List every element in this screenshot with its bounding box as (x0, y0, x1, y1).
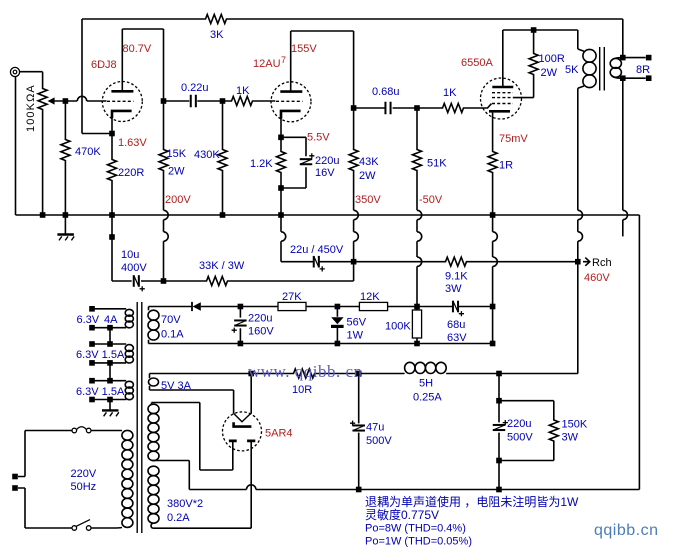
resistor 10R (292, 369, 316, 378)
capacitor 220u/500V branch (498, 374, 500, 490)
zener 56V upper lead (336, 307, 338, 317)
wire cathode branch to 220u/16V (281, 137, 306, 156)
junction rail 100K bottom (414, 341, 420, 347)
wire 43K lower lead with hops (353, 172, 355, 210)
wire wiper to grid (hop over feedback wire) (54, 100, 77, 102)
capacitor 68u/63V (452, 301, 459, 313)
wire primary bottom to switch (91, 527, 122, 530)
switch S1 (72, 526, 77, 531)
svg-text:1R: 1R (499, 160, 513, 172)
junction 0.68u right node (414, 105, 420, 111)
svg-text:75mV: 75mV (499, 133, 528, 145)
junction rail zener bottom (335, 341, 341, 347)
junction bias 220u top (238, 304, 244, 310)
svg-text:6550A: 6550A (461, 57, 493, 69)
winding 5V 3A (149, 374, 151, 379)
svg-text:6.3V 1.5A: 6.3V 1.5A (76, 349, 125, 361)
resistor 470K (61, 138, 70, 162)
resistor 430K upper lead (222, 101, 224, 148)
svg-text:2W: 2W (168, 166, 185, 178)
wire 380V center tap (153, 461, 190, 490)
resistor 150K 3W (549, 419, 558, 443)
svg-text:退耦为单声道使用 ，电阻未注明皆为1W: 退耦为单声道使用 ，电阻未注明皆为1W (365, 494, 579, 509)
svg-text:100K: 100K (385, 321, 411, 333)
power transformer core (137, 302, 142, 533)
junction bus 220R (109, 212, 115, 218)
svg-text:3W: 3W (445, 283, 462, 295)
capacitor 0.68u (384, 102, 391, 115)
wire 33K row right (229, 280, 354, 282)
svg-text:220u: 220u (507, 418, 531, 430)
wire 12AU7 cathode node below bus (280, 215, 282, 232)
wire 0.22u to 1K (197, 100, 230, 102)
wire fuse to primary (91, 430, 122, 432)
svg-text:470K: 470K (75, 146, 101, 158)
zener 56V 1W (331, 317, 343, 324)
svg-text:0.2A: 0.2A (167, 512, 190, 524)
wire OPT B+ riser continues with hops (578, 210, 583, 219)
svg-text:5H: 5H (419, 378, 433, 390)
svg-text:7: 7 (281, 55, 286, 65)
wire grid into 6DJ8 (87, 100, 107, 102)
6DJ8 envelope (102, 82, 142, 122)
svg-text:0.1A: 0.1A (161, 329, 184, 341)
heater winding 6.3V 4A (92, 308, 126, 310)
wire 10R to 47u node (316, 373, 405, 375)
svg-text:5.5V: 5.5V (307, 132, 330, 144)
wire 350V node row (22u feed) (281, 261, 313, 263)
resistor 220R lower lead (111, 182, 113, 215)
svg-text:500V: 500V (507, 432, 533, 444)
svg-text:100KΩA: 100KΩA (25, 84, 37, 132)
svg-text:灵敏度0.775V: 灵敏度0.775V (365, 507, 439, 522)
resistor 1.2K upper lead (280, 137, 282, 150)
junction -50V 100K node (414, 304, 420, 310)
terminal 8R minus (646, 75, 652, 81)
wire 12AU7 plate up over to 0.68u node (291, 31, 354, 108)
wire switch to mains (25, 527, 72, 529)
junction Rch 460V node (575, 259, 581, 265)
svg-text:12AU: 12AU (253, 58, 281, 70)
wire 9.1K to Rch node (468, 261, 578, 263)
junction 6DJ8 cathode node (109, 131, 115, 137)
wire cathode bypass branch below bus (111, 215, 113, 281)
wire 10u cap left lead (112, 280, 132, 282)
resistor 43K 2W (349, 148, 358, 172)
wire feedback top left segment (82, 18, 204, 20)
wire secondary to 8R terminals (623, 58, 646, 79)
svg-text:70V: 70V (161, 314, 181, 326)
svg-text:0.25A: 0.25A (413, 392, 442, 404)
svg-text:160V: 160V (248, 326, 274, 338)
svg-text:430K: 430K (194, 149, 220, 161)
6550A plate bar (492, 86, 513, 89)
B- return bus bottom (189, 489, 246, 491)
svg-text:400V: 400V (121, 262, 147, 274)
svg-text:3W: 3W (562, 432, 579, 444)
wire heater chain 2-3 (109, 363, 111, 381)
capacitor 220u/160V (234, 319, 247, 326)
svg-text:5AR4: 5AR4 (265, 428, 293, 440)
svg-text:6DJ8: 6DJ8 (91, 59, 117, 71)
wire jack to volume pot (20, 72, 43, 87)
svg-text:100R: 100R (539, 53, 565, 65)
ground stub below bus at input (64, 217, 66, 234)
6550A grid dashes g3 g2 g1 (492, 93, 513, 104)
wire hop over feedback vertical (77, 96, 86, 101)
6550A cathode bar (489, 110, 510, 113)
svg-text:0.22u: 0.22u (181, 82, 209, 94)
resistor 100R 2W (529, 52, 538, 76)
plus sign 220u/16V (309, 153, 314, 158)
svg-text:10R: 10R (292, 384, 312, 396)
plus sign 220u/500V (503, 420, 508, 425)
wire 43K upper lead (353, 108, 355, 148)
5AR4 envelope (223, 412, 262, 451)
wire filament right leg to B+ node (250, 374, 252, 414)
12AU7 plate bar (280, 90, 302, 93)
svg-text:200V: 200V (165, 194, 191, 206)
resistor 27K (box) (278, 302, 306, 310)
resistor 100K (box) (412, 310, 421, 338)
svg-text:10u: 10u (121, 249, 139, 261)
svg-text:6.3V: 6.3V (77, 314, 100, 326)
svg-text:500V: 500V (366, 435, 392, 447)
junction plate/coupling node (161, 98, 167, 104)
heater terminals (89, 306, 95, 312)
svg-text:350V: 350V (355, 194, 381, 206)
svg-text:460V: 460V (584, 272, 610, 284)
wire feedback corner into secondary (622, 19, 624, 58)
junction 150K bottom branch (496, 458, 502, 464)
junction 47u top (356, 371, 362, 377)
svg-text:51K: 51K (427, 158, 447, 170)
resistor 9.1K 3W (444, 257, 468, 266)
svg-text:16V: 16V (315, 167, 335, 179)
capacitor 220u/500V (493, 424, 506, 431)
svg-text:2W: 2W (541, 67, 558, 79)
svg-text:3K: 3K (210, 29, 224, 41)
OPT secondary winding (612, 58, 623, 61)
junction 12AU7 cathode top (278, 135, 284, 141)
fuse F1 (72, 428, 77, 433)
wire 15K lower lead with hops (163, 172, 165, 210)
junction secondary bottom (620, 75, 626, 81)
svg-text:4A: 4A (104, 314, 118, 326)
wire 12AU7 cathode lead (280, 118, 282, 138)
svg-text:68u: 68u (447, 319, 465, 331)
svg-text:22u / 450V: 22u / 450V (290, 244, 344, 256)
svg-text:155V: 155V (291, 43, 317, 55)
wire 6550A plate up to OPT node (503, 30, 578, 87)
svg-text:12K: 12K (360, 291, 380, 303)
wire 0.68u row left (354, 107, 386, 109)
svg-text:15K: 15K (167, 148, 187, 160)
junction 430K top (220, 98, 226, 104)
svg-text:-50V: -50V (419, 194, 443, 206)
wire feedback drop to 6DJ8 cathode (82, 19, 112, 134)
wire 6DJ8 plate up and over to 15K (122, 29, 163, 91)
6550A envelope (481, 78, 522, 119)
heater winding 6.3V 1.5A (second) (92, 343, 126, 345)
wire cathode node below bus with hops (492, 215, 494, 232)
wire plate node vertical x163.5 upper (163, 29, 165, 148)
arrow Rch output (583, 258, 590, 266)
mains plug stubs (18, 431, 25, 529)
svg-text:qqibb.cn: qqibb.cn (594, 522, 659, 539)
winding 380V*2 lower half (148, 466, 159, 476)
junction rail 220u bottom (238, 341, 244, 347)
winding 70V 0.1A (148, 307, 150, 311)
resistor 430K (218, 148, 227, 172)
wire 6550A cathode lead (492, 113, 494, 150)
svg-text:56V: 56V (347, 317, 367, 329)
junction 350V node (351, 259, 357, 265)
potentiometer lower lead (42, 111, 44, 215)
svg-text:5K: 5K (565, 64, 579, 76)
wire choke to 220u/500V node and Rch riser (446, 373, 578, 375)
OPT primary winding (583, 49, 596, 62)
svg-text:220V: 220V (71, 468, 97, 480)
svg-text:9.1K: 9.1K (445, 271, 468, 283)
junction OPT plate node (531, 27, 537, 33)
junction B+ takeoff 5AR4 (248, 371, 254, 377)
resistor 1K (6550A grid stopper) (441, 104, 465, 113)
choke 5H 0.25A (405, 362, 415, 373)
junction secondary top (620, 55, 626, 61)
resistor 33K/3W (205, 277, 229, 286)
svg-text:33K / 3W: 33K / 3W (199, 260, 245, 272)
resistor 1.2K lower lead (280, 174, 282, 215)
winding 380V*2 upper half (151, 403, 153, 405)
resistor 100K (box) leads (416, 307, 418, 344)
6DJ8 grid dashes (107, 100, 134, 102)
resistor 470K lower lead (64, 162, 66, 215)
bias rail bottom horizontal (149, 343, 493, 345)
wire 5V top lead / B+ takeoff row (150, 373, 293, 375)
svg-text:Rch: Rch (592, 257, 612, 269)
svg-text:47u: 47u (366, 422, 384, 434)
junction stub below 220R (109, 234, 115, 240)
wire 68u node down to rail corner (492, 307, 494, 344)
junction bus 12AU7 cathode (278, 212, 284, 218)
ground symbol heater center tap (102, 410, 119, 416)
svg-text:1.2K: 1.2K (250, 158, 273, 170)
plus sign 47u/500V (350, 421, 355, 426)
svg-text:63V: 63V (447, 332, 467, 344)
plus sign 220u/160V (232, 328, 237, 333)
capacitor 47u/500V (352, 424, 365, 431)
resistor 150K 3W branch top (499, 401, 554, 419)
input jack J1 (10, 67, 19, 76)
wire 1K to 12AU7 grid (254, 100, 275, 102)
wire 51K upper lead (416, 108, 418, 148)
wire mains top to fuse (25, 430, 72, 432)
capacitor 10u/400V (133, 275, 140, 287)
wire 380V top lead to left plate path (152, 403, 233, 471)
wire 220u lower lead (281, 167, 306, 188)
svg-text:Po=8W (THD=0.4%): Po=8W (THD=0.4%) (365, 523, 466, 535)
OPT primary top lead (578, 30, 584, 51)
resistor 100R 2W leads (533, 30, 535, 98)
winding 220V primary (122, 430, 133, 440)
wire 350V row to 9.1K (354, 261, 444, 263)
5AR4 filament V (234, 413, 251, 421)
5AR4 plate ticks (233, 441, 251, 445)
terminal 8R plus (646, 55, 652, 61)
wire heater center to ground (109, 400, 111, 410)
junction 150K top branch (496, 398, 502, 404)
wire 68u to corner node (459, 306, 493, 308)
svg-text:150K: 150K (562, 419, 588, 431)
wire 33K node riser (353, 262, 355, 281)
12AU7 grid dashes (276, 100, 303, 102)
junction 0.68u left node (351, 105, 357, 111)
resistor 12K (box) (359, 302, 387, 310)
svg-text:6.3V 1.5A: 6.3V 1.5A (76, 386, 125, 398)
6550A screen tie line (513, 97, 534, 99)
potentiometer 100KΩA body (38, 87, 47, 111)
svg-text:1K: 1K (443, 87, 457, 99)
resistor 51K (413, 148, 422, 172)
wire 22u to 43K bottom node (319, 261, 353, 263)
mains terminals (12, 474, 18, 480)
svg-text:0.68u: 0.68u (372, 86, 400, 98)
capacitor 0.22u (190, 95, 197, 108)
capacitor 22u/450V (313, 256, 320, 268)
resistor 470K upper lead (64, 101, 66, 138)
resistor 150K bottom lead (499, 443, 554, 461)
capacitor 220u/160V leads (239, 307, 241, 344)
resistor 1K (12AU7 grid stopper) (230, 97, 254, 106)
potentiometer wiper arrow (48, 97, 55, 104)
6DJ8 plate bar (111, 90, 133, 93)
junction 200V node (161, 278, 167, 284)
5AR4 cathode (234, 422, 252, 426)
resistor 15K 2W (159, 148, 168, 172)
junction bottom bus 47u (356, 487, 362, 493)
svg-text:27K: 27K (282, 291, 302, 303)
resistor 1R (488, 150, 497, 174)
ground bus main horizontal (16, 214, 640, 216)
svg-text:2W: 2W (359, 170, 376, 182)
junction bottom bus 220u (496, 487, 502, 493)
junction 470K top (63, 98, 69, 104)
junction bus 1R (490, 212, 496, 218)
wire jack shield to ground bus (15, 77, 17, 215)
wire 12K to 100K node (388, 306, 453, 308)
wire 1R to ground bus (492, 174, 494, 215)
junction zener top (335, 304, 341, 310)
12AU7 envelope (271, 82, 311, 122)
svg-text:50Hz: 50Hz (71, 481, 97, 493)
wire 5V bottom lead to filament (150, 390, 234, 414)
wire bus right edge drop (638, 215, 640, 490)
ground symbol input (57, 235, 74, 241)
wire heater chain 1-2 (109, 328, 111, 344)
wire 6DJ8 cathode lead to node (111, 118, 113, 159)
junction bus 430K (220, 212, 226, 218)
junction bus 470K/ground (63, 212, 69, 218)
svg-text:Po=1W (THD=0.05%): Po=1W (THD=0.05%) (365, 536, 472, 548)
svg-text:220R: 220R (118, 167, 144, 179)
wire diode to 220u/160V node (201, 306, 278, 308)
junction rail corner (490, 341, 496, 347)
OPT core (600, 47, 605, 91)
resistor 220R (108, 158, 117, 182)
svg-text:80.7V: 80.7V (123, 43, 152, 55)
12AU7 cathode (281, 111, 301, 119)
svg-text:380V*2: 380V*2 (167, 498, 203, 510)
wire feedback top right segment (228, 18, 623, 20)
svg-text:220u: 220u (248, 313, 272, 325)
capacitor 47u/500V leads (358, 374, 360, 490)
resistor 3K (feedback) (204, 15, 228, 24)
svg-text:1.63V: 1.63V (118, 137, 147, 149)
svg-text:1W: 1W (347, 330, 364, 342)
wire 380V bottom lead to right plate (151, 445, 251, 528)
diode D1 bias rectifier (191, 302, 193, 311)
svg-text:www. qqibb. cn: www. qqibb. cn (248, 362, 363, 381)
wire 27K to zener node (306, 306, 359, 308)
plus sign 68u/63V (459, 311, 464, 316)
wire 1K to 6550A grid (465, 104, 492, 108)
wire 33K row left (164, 280, 206, 282)
plus sign 22u/450V (320, 266, 325, 271)
resistor 430K lower lead (222, 172, 224, 215)
svg-text:8R: 8R (636, 64, 650, 76)
svg-text:1K: 1K (236, 85, 250, 97)
zener lower lead (336, 328, 338, 344)
svg-text:5V 3A: 5V 3A (161, 380, 192, 392)
svg-text:43K: 43K (359, 156, 379, 168)
wire secondary cold end dangling (622, 78, 624, 210)
junction 68u right (490, 304, 496, 310)
wire 0.68u row mid (393, 107, 441, 109)
5AR4 plate bars (229, 439, 255, 442)
wire bias row 70V winding to diode (149, 306, 192, 308)
junction 12AU7 cathode bottom (278, 185, 284, 191)
svg-text:220u: 220u (315, 155, 339, 167)
wire 51K lower lead with hops (416, 172, 418, 210)
wire 10u cap right lead (141, 280, 164, 282)
OPT primary bottom lead (578, 86, 584, 210)
heater winding 6.3V 1.5A (third) (92, 380, 126, 382)
6DJ8 cathode (112, 111, 132, 118)
capacitor 220u 16V (cathode bypass) (300, 158, 313, 165)
resistor 1.2K (277, 150, 286, 174)
junction 220u/500V top (496, 371, 502, 377)
wire coupling node to 0.22u (164, 100, 190, 102)
junction bus pot (40, 212, 46, 218)
